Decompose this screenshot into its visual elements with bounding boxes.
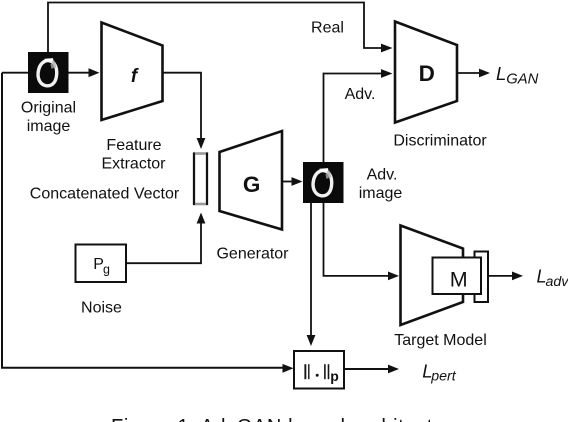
svg-text:Concatenated Vector: Concatenated Vector	[30, 186, 180, 203]
wire left input into original image	[2, 72, 28, 74]
wire real path: original image top, across top, down into D	[48, 3, 382, 53]
wire f output to concatenated vector	[163, 73, 202, 139]
svg-text:Generator: Generator	[216, 246, 289, 263]
target model trapezoid	[401, 226, 464, 326]
svg-text:p: p	[330, 368, 339, 384]
svg-text:Noise: Noise	[81, 300, 122, 317]
svg-text:Discriminator: Discriminator	[393, 133, 487, 150]
svg-text:Real: Real	[311, 20, 344, 37]
noise box Pg	[76, 245, 127, 283]
generator U G	[220, 131, 283, 230]
svg-text:adv: adv	[546, 274, 568, 290]
svg-text:Original: Original	[21, 100, 76, 117]
target model bracket rect	[475, 252, 489, 303]
svg-text:Feature: Feature	[106, 137, 161, 154]
norm box	[294, 351, 344, 389]
arrowhead into D (Adv input)	[381, 69, 393, 78]
arrowhead into D (Real input)	[381, 44, 393, 53]
svg-text:Figure 1: AdvGAN based archite: Figure 1: AdvGAN based architecture	[111, 416, 463, 422]
adv image	[303, 162, 344, 203]
svg-text:g: g	[103, 263, 110, 277]
wire Pg to concatenated vector	[126, 222, 201, 263]
svg-text:D: D	[419, 61, 435, 86]
target model M box	[433, 258, 482, 295]
wire adv vertical from adv image up, into D	[324, 74, 383, 163]
wire adv image to target model	[324, 203, 390, 276]
svg-text:image: image	[359, 185, 403, 202]
wire original image to f	[69, 72, 90, 74]
svg-text:Extractor: Extractor	[101, 156, 166, 173]
svg-text:M: M	[450, 268, 468, 292]
discriminator U D	[395, 22, 457, 123]
svg-text:Target Model: Target Model	[394, 332, 487, 349]
output wire M to L_adv	[488, 275, 513, 277]
wire adv image down to norm box	[310, 203, 312, 336]
svg-text:G: G	[243, 172, 261, 197]
svg-text:image: image	[27, 118, 71, 135]
wire long pert path: down left edge and across bottom to norm box	[2, 73, 284, 368]
feature extractor U f	[102, 23, 163, 121]
svg-text:pert: pert	[430, 369, 457, 385]
concatenated vector	[194, 154, 207, 205]
svg-text:Adv.: Adv.	[345, 86, 376, 103]
output wire D to L_GAN	[457, 72, 480, 74]
svg-text:Adv.: Adv.	[367, 167, 398, 184]
svg-text:GAN: GAN	[506, 72, 538, 88]
output wire norm to L_pert	[344, 368, 389, 370]
original image	[28, 52, 69, 93]
wire G to adv image	[282, 181, 293, 183]
svg-text:L: L	[496, 63, 506, 84]
